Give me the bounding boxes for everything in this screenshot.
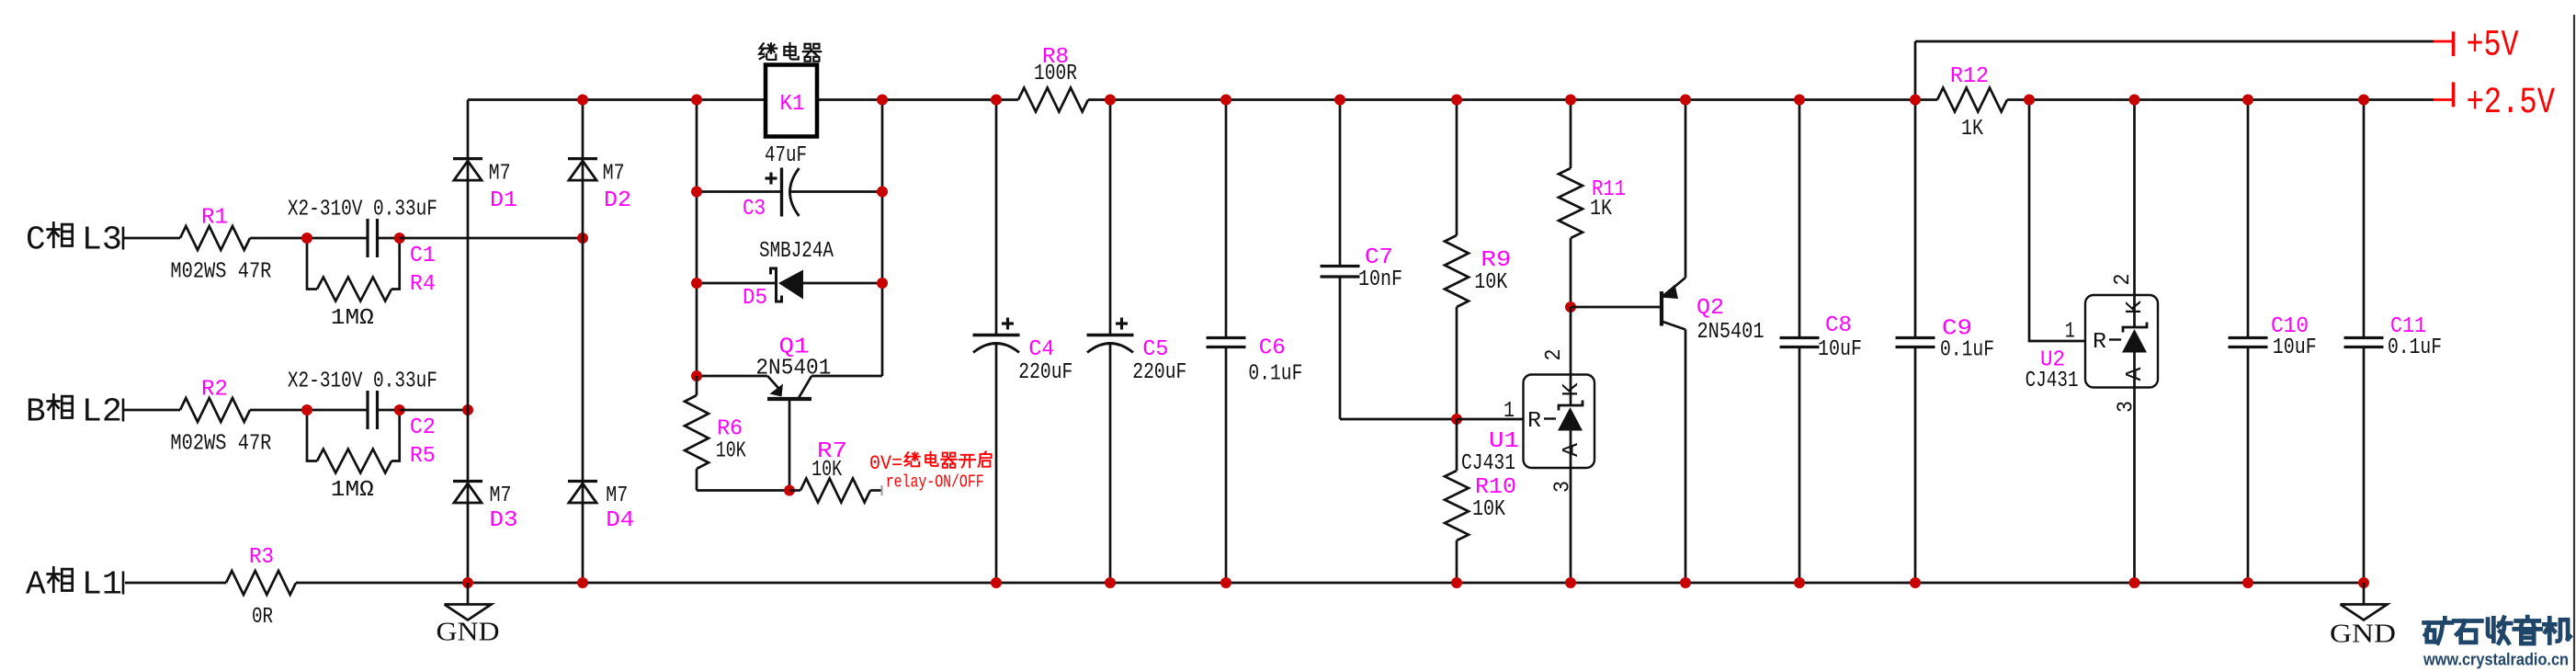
- svg-text:M7: M7: [603, 162, 625, 187]
- label 继电器 relay: [759, 43, 777, 60]
- node C4 top: [991, 95, 1002, 106]
- node U2 A ground junction: [2129, 577, 2140, 588]
- svg-text:+2.5V: +2.5V: [2467, 83, 2556, 124]
- ground symbol GND left: [467, 583, 470, 605]
- svg-text:C1: C1: [410, 244, 436, 268]
- node C4 bottom: [991, 577, 1002, 588]
- svg-text:K1: K1: [780, 92, 805, 117]
- wire bottom rail R3 to GND node: [296, 582, 468, 585]
- node Q1 base junction: [784, 485, 795, 496]
- IC U1 CJ431 shunt reference: [1524, 375, 1595, 469]
- svg-text:1K: 1K: [1590, 197, 1612, 222]
- node D3 ground junction: [462, 577, 473, 588]
- node C5 top: [1105, 95, 1116, 106]
- svg-text:X2-310V 0.33uF: X2-310V 0.33uF: [288, 198, 437, 222]
- svg-text:10K: 10K: [716, 438, 746, 463]
- svg-text:1MΩ: 1MΩ: [331, 306, 374, 331]
- node Q1 emitter junction: [691, 370, 702, 381]
- transistor Q2 2N5401 PNP: [1685, 100, 1687, 279]
- svg-text:0.1uF: 0.1uF: [1940, 338, 1994, 363]
- wire L3 to R1: [124, 237, 180, 240]
- svg-text:D5: D5: [743, 286, 767, 311]
- svg-text:R3: R3: [249, 545, 274, 570]
- svg-text:C2: C2: [410, 415, 436, 440]
- relay K1 coil box: [766, 65, 817, 137]
- node U2 R branch top: [2024, 95, 2035, 106]
- svg-text:3: 3: [1551, 481, 1576, 493]
- diode D5 SMBJ24A TVS across relay: [697, 282, 777, 285]
- node Q2 collector bottom: [1680, 577, 1691, 588]
- node C10 bottom: [2242, 577, 2253, 588]
- svg-text:D3: D3: [490, 508, 518, 533]
- capacitor C4 220uF electrolytic column: [995, 100, 998, 335]
- node U1 anode to ground: [1565, 577, 1576, 588]
- svg-text:B: B: [26, 393, 46, 431]
- svg-text:GND: GND: [437, 618, 500, 647]
- svg-text:1: 1: [2065, 319, 2075, 344]
- node D4 ground junction: [577, 577, 588, 588]
- svg-text:C4: C4: [1028, 337, 1054, 362]
- wire U1 K lead: [1570, 307, 1572, 375]
- svg-text:1MΩ: 1MΩ: [331, 478, 374, 503]
- wire R6 bottom to Q1 base node: [697, 489, 789, 492]
- wire relay right column (K1/C3/D5 right): [881, 100, 884, 377]
- svg-text:R5: R5: [410, 444, 436, 469]
- resistor R11 1K: [1570, 100, 1572, 169]
- svg-text:D2: D2: [604, 188, 631, 213]
- svg-text:1: 1: [1504, 399, 1515, 424]
- node Q2 emitter top: [1680, 95, 1691, 106]
- svg-text:1K: 1K: [1961, 117, 1983, 142]
- wire +2.5V top rail left segment (D1 top to D2 top): [468, 98, 583, 101]
- svg-text:R2: R2: [201, 377, 228, 402]
- node C7 top: [1334, 95, 1345, 106]
- wire top rail R12 to U2-K node: [2029, 98, 2135, 101]
- svg-text:0R: 0R: [252, 605, 273, 630]
- wire top rail U2-K node to C10 node: [2135, 98, 2249, 101]
- svg-text:CJ431: CJ431: [2026, 369, 2079, 393]
- svg-text:M02WS 47R: M02WS 47R: [170, 260, 271, 285]
- svg-text:10K: 10K: [1474, 270, 1507, 295]
- svg-text:K: K: [1560, 382, 1584, 397]
- svg-text:R12: R12: [1950, 64, 1989, 89]
- svg-text:0.1uF: 0.1uF: [2388, 335, 2442, 360]
- diode D1 M7: [453, 157, 482, 160]
- svg-text:U1: U1: [1489, 429, 1519, 454]
- wire Q2 base to R11 node: [1571, 306, 1660, 309]
- node D5 right: [877, 278, 888, 289]
- svg-text:D4: D4: [606, 508, 634, 533]
- node C2 left junction: [301, 404, 312, 415]
- svg-text:+5V: +5V: [2467, 26, 2519, 67]
- svg-text:3: 3: [2115, 401, 2139, 413]
- svg-text:10nF: 10nF: [1358, 267, 1402, 292]
- node C10 top: [2242, 95, 2253, 106]
- wire top rail C5 node to C6 node: [1110, 98, 1226, 101]
- capacitor C10 10uF column: [2247, 100, 2250, 338]
- svg-text:L3: L3: [82, 222, 122, 259]
- svg-text:C: C: [26, 222, 46, 259]
- svg-text:C3: C3: [743, 197, 766, 222]
- svg-text:R: R: [2093, 330, 2106, 355]
- node K1 right rail junction: [877, 95, 888, 106]
- svg-text:2: 2: [1542, 349, 1567, 361]
- wire R1 to C1 node: [250, 237, 307, 240]
- resistor R6 10K: [696, 376, 698, 395]
- wire +5V branch vertical at C9 node: [1914, 41, 1917, 100]
- capacitor C7 10nF column: [1339, 100, 1342, 267]
- svg-text:10K: 10K: [811, 458, 842, 483]
- node R11/Q2-base/U1-K junction: [1565, 301, 1576, 313]
- wire bottom rail across schematic: [468, 582, 2364, 585]
- node C6 top: [1220, 95, 1231, 106]
- svg-text:2: 2: [2111, 274, 2136, 286]
- node C2 right junction: [394, 404, 405, 415]
- svg-text:R10: R10: [1475, 475, 1516, 500]
- wire top rail C8 to C9 node: [1799, 98, 1915, 101]
- wire top rail K1-right node to R8 left node: [882, 98, 996, 101]
- wire D1/D3 column: [467, 100, 470, 584]
- resistor R9 10K: [1456, 100, 1458, 236]
- wire U2 A lead to ground rail: [2133, 388, 2136, 584]
- diode D3 M7: [453, 480, 482, 483]
- svg-text:10uF: 10uF: [1818, 337, 1862, 362]
- wire K1 box to right node: [817, 98, 882, 101]
- node C9 bottom: [1910, 577, 1921, 588]
- node C-phase to diode column D2/D4: [577, 233, 588, 244]
- node R9/R10/C7 junction: [1451, 414, 1462, 425]
- svg-text:A: A: [1560, 442, 1584, 457]
- svg-text:C5: C5: [1142, 337, 1168, 362]
- svg-text:L2: L2: [82, 393, 122, 431]
- diode D2 M7: [568, 157, 597, 160]
- capacitor C8 10uF column: [1799, 100, 1801, 338]
- wire top rail Q2 to C8 node: [1685, 98, 1799, 101]
- diode D4 M7: [568, 480, 597, 483]
- port A-phase L1 terminal tick: [122, 572, 125, 595]
- svg-text:GND: GND: [2330, 620, 2396, 649]
- node C11 top: [2358, 95, 2369, 106]
- node U2 K rail junction: [2129, 95, 2140, 106]
- svg-text:10K: 10K: [1472, 497, 1505, 522]
- wire U1 A lead to ground rail: [1570, 468, 1572, 583]
- node C1 right junction: [394, 233, 405, 244]
- wire +5V rail horizontal: [1915, 40, 2434, 43]
- node C3 right: [877, 187, 888, 198]
- ground symbol GND right: [2363, 583, 2366, 605]
- svg-text:C6: C6: [1259, 336, 1286, 361]
- node C9/R12/+5V junction: [1910, 95, 1921, 106]
- port B-phase L2 terminal tick: [122, 399, 125, 422]
- node R10 bottom: [1451, 577, 1462, 588]
- capacitor C3 47uF electrolytic across relay: [697, 190, 781, 193]
- svg-text:R1: R1: [201, 205, 228, 230]
- wire L2 to R2: [124, 409, 180, 412]
- capacitor C5 220uF electrolytic column: [1109, 100, 1112, 335]
- wire top rail D2 to K1-left node: [583, 98, 697, 101]
- node C1 left junction: [301, 233, 312, 244]
- wire top rail C6 to C7 node: [1226, 98, 1340, 101]
- svg-text:0.1uF: 0.1uF: [1248, 362, 1302, 387]
- wire U1 R pin: [1457, 418, 1524, 421]
- wire C1 to D2/D4 column: [400, 237, 583, 240]
- svg-text:M02WS 47R: M02WS 47R: [170, 432, 271, 457]
- wire R8 right lead region to C5 node: [996, 98, 1018, 101]
- capacitor C11 0.1uF column: [2363, 100, 2366, 338]
- svg-text:220uF: 220uF: [1018, 360, 1072, 385]
- capacitor C2 (X2 film): [307, 409, 368, 412]
- resistor R3 0R (series in A-phase line): [226, 571, 296, 595]
- svg-text:A: A: [2123, 367, 2148, 381]
- wire +2.5V rail to terminal: [2364, 98, 2434, 101]
- svg-text:M7: M7: [606, 483, 628, 508]
- node D5 left: [691, 278, 702, 289]
- resistor R5 1M in parallel below C2: [307, 410, 317, 461]
- resistor R10 10K: [1456, 419, 1458, 471]
- capacitor C9 0.1uF column: [1914, 100, 1917, 338]
- svg-text:L1: L1: [82, 566, 122, 604]
- node D2 top rail junction: [577, 95, 588, 106]
- svg-text:M7: M7: [489, 162, 511, 187]
- svg-text:SMBJ24A: SMBJ24A: [759, 239, 834, 264]
- wire U2 K lead to +2.5V rail: [2133, 100, 2136, 296]
- wire C7 to U1-R node: [1340, 418, 1457, 421]
- node C5 bottom: [1105, 577, 1116, 588]
- wire top rail C10 to C11 node: [2248, 98, 2364, 101]
- resistor R8 100R (series in +5V rail): [1018, 88, 1088, 112]
- capacitor C1 (X2 film): [307, 237, 368, 240]
- svg-text:C8: C8: [1825, 313, 1852, 338]
- svg-text:www.crystalradio.cn: www.crystalradio.cn: [2423, 650, 2569, 669]
- svg-text:R: R: [1527, 409, 1541, 434]
- node R9 top: [1451, 95, 1462, 106]
- svg-text:R9: R9: [1481, 248, 1511, 273]
- node C11 bottom: [2358, 577, 2369, 588]
- wire D2/D4 column: [582, 100, 584, 584]
- screenshot right border line: [2573, 15, 2575, 671]
- watermark logo 矿石收音机: [2424, 618, 2452, 643]
- resistor R7 10K: [789, 489, 800, 492]
- svg-text:10uF: 10uF: [2273, 335, 2317, 360]
- transistor Q1 2N5401 PNP: [697, 375, 767, 378]
- resistor R1 (MO2WS 47R): [180, 226, 250, 250]
- resistor R12 1K (series in rail): [1937, 88, 2007, 112]
- svg-text:47uF: 47uF: [765, 143, 807, 168]
- IC U2 CJ431 shunt reference: [2085, 295, 2158, 388]
- svg-text:100R: 100R: [1034, 62, 1077, 86]
- svg-text:C7: C7: [1365, 245, 1393, 270]
- svg-text:Q2: Q2: [1697, 296, 1724, 321]
- node C3 left: [691, 187, 702, 198]
- node C8 top: [1794, 95, 1805, 106]
- svg-text:X2-310V 0.33uF: X2-310V 0.33uF: [288, 370, 437, 394]
- svg-text:220uF: 220uF: [1132, 360, 1186, 385]
- wire C2 to D1/D3 column: [400, 409, 468, 412]
- wire top rail C7 to R9 node: [1340, 98, 1457, 101]
- power terminal +5V: [2434, 40, 2453, 43]
- node K1 left rail junction: [691, 95, 702, 106]
- svg-text:K: K: [2123, 300, 2148, 314]
- wire top rail R11 to Q2 node: [1571, 98, 1685, 101]
- wire top rail R9 to R11 node: [1457, 98, 1571, 101]
- svg-text:A: A: [26, 566, 46, 604]
- wire relay left column (K1/C3/D5/Q1 left): [696, 100, 698, 377]
- wire top rail node to K1 box: [697, 98, 766, 101]
- svg-text:D1: D1: [490, 188, 517, 213]
- node C8 bottom: [1794, 577, 1805, 588]
- capacitor C6 0.1uF column: [1225, 100, 1228, 338]
- wire U2 R branch: [2029, 100, 2085, 342]
- open wire end mark after R7: [881, 485, 883, 495]
- svg-text:CJ431: CJ431: [1461, 451, 1515, 476]
- node C6 bottom: [1220, 577, 1231, 588]
- svg-text:relay-ON/OFF: relay-ON/OFF: [886, 472, 984, 493]
- power terminal +2.5V: [2434, 98, 2453, 101]
- resistor R2 (MO2WS 47R): [180, 398, 250, 422]
- wire bottom GND rail (A-phase) left: [125, 582, 226, 585]
- wire R2 to C2 node: [250, 409, 307, 412]
- node R11 top: [1565, 95, 1576, 106]
- node B-phase to diode column D1/D3: [462, 404, 473, 415]
- resistor R4 1M in parallel below C1: [307, 238, 317, 290]
- svg-text:M7: M7: [490, 483, 512, 508]
- port C-phase L3 terminal tick: [122, 227, 125, 250]
- svg-text:R4: R4: [410, 272, 436, 297]
- svg-text:2N5401: 2N5401: [1697, 320, 1765, 345]
